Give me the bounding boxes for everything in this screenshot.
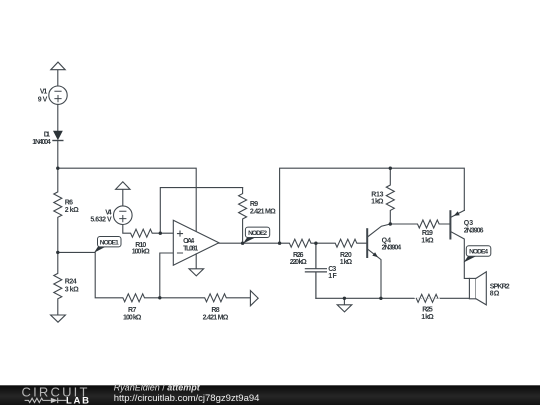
svg-text:NODE4: NODE4 bbox=[469, 249, 488, 256]
svg-text:R20: R20 bbox=[340, 252, 352, 259]
svg-text:V4: V4 bbox=[105, 210, 112, 217]
svg-text:2N3906: 2N3906 bbox=[464, 227, 484, 234]
svg-text:1N4004: 1N4004 bbox=[32, 139, 51, 146]
svg-text:V1: V1 bbox=[40, 88, 47, 95]
svg-text:R25: R25 bbox=[422, 306, 433, 313]
svg-text:http://circuitlab.com/cj78gz9z: http://circuitlab.com/cj78gz9zt9a94 bbox=[114, 393, 260, 404]
svg-text:Q3: Q3 bbox=[464, 220, 473, 227]
svg-text:LAB: LAB bbox=[66, 395, 91, 405]
svg-text:2N3904: 2N3904 bbox=[382, 245, 402, 252]
svg-text:NODE2: NODE2 bbox=[248, 230, 267, 237]
svg-text:1 kΩ: 1 kΩ bbox=[340, 259, 353, 266]
svg-text:1 kΩ: 1 kΩ bbox=[371, 198, 384, 205]
svg-text:1 kΩ: 1 kΩ bbox=[421, 238, 434, 245]
svg-text:R26: R26 bbox=[293, 252, 304, 259]
svg-text:R19: R19 bbox=[422, 230, 433, 237]
svg-text:5.632 V: 5.632 V bbox=[90, 217, 112, 224]
svg-text:2.421 MΩ: 2.421 MΩ bbox=[203, 315, 229, 322]
svg-text:R7: R7 bbox=[128, 307, 136, 314]
svg-text:RyanEldien / attempt: RyanEldien / attempt bbox=[114, 383, 201, 393]
svg-text:NODE1: NODE1 bbox=[100, 239, 119, 246]
svg-text:R24: R24 bbox=[65, 279, 77, 286]
svg-text:R9: R9 bbox=[250, 201, 258, 208]
svg-text:SPKR2: SPKR2 bbox=[490, 283, 510, 290]
svg-text:TL081: TL081 bbox=[183, 245, 198, 252]
svg-text:D1: D1 bbox=[44, 132, 50, 139]
svg-text:1 kΩ: 1 kΩ bbox=[421, 314, 434, 321]
svg-text:9 V: 9 V bbox=[38, 97, 48, 104]
svg-text:OA4: OA4 bbox=[183, 238, 194, 245]
svg-text:2.421 MΩ: 2.421 MΩ bbox=[250, 209, 276, 216]
svg-text:1 F: 1 F bbox=[328, 273, 337, 280]
svg-text:8 Ω: 8 Ω bbox=[490, 291, 500, 298]
svg-text:2 kΩ: 2 kΩ bbox=[65, 207, 79, 214]
svg-text:3 kΩ: 3 kΩ bbox=[65, 287, 79, 294]
svg-text:100 kΩ: 100 kΩ bbox=[123, 315, 142, 322]
svg-text:R8: R8 bbox=[211, 307, 219, 314]
svg-text:100 kΩ: 100 kΩ bbox=[132, 249, 150, 256]
svg-text:R6: R6 bbox=[65, 199, 73, 206]
svg-text:220 kΩ: 220 kΩ bbox=[290, 259, 307, 266]
